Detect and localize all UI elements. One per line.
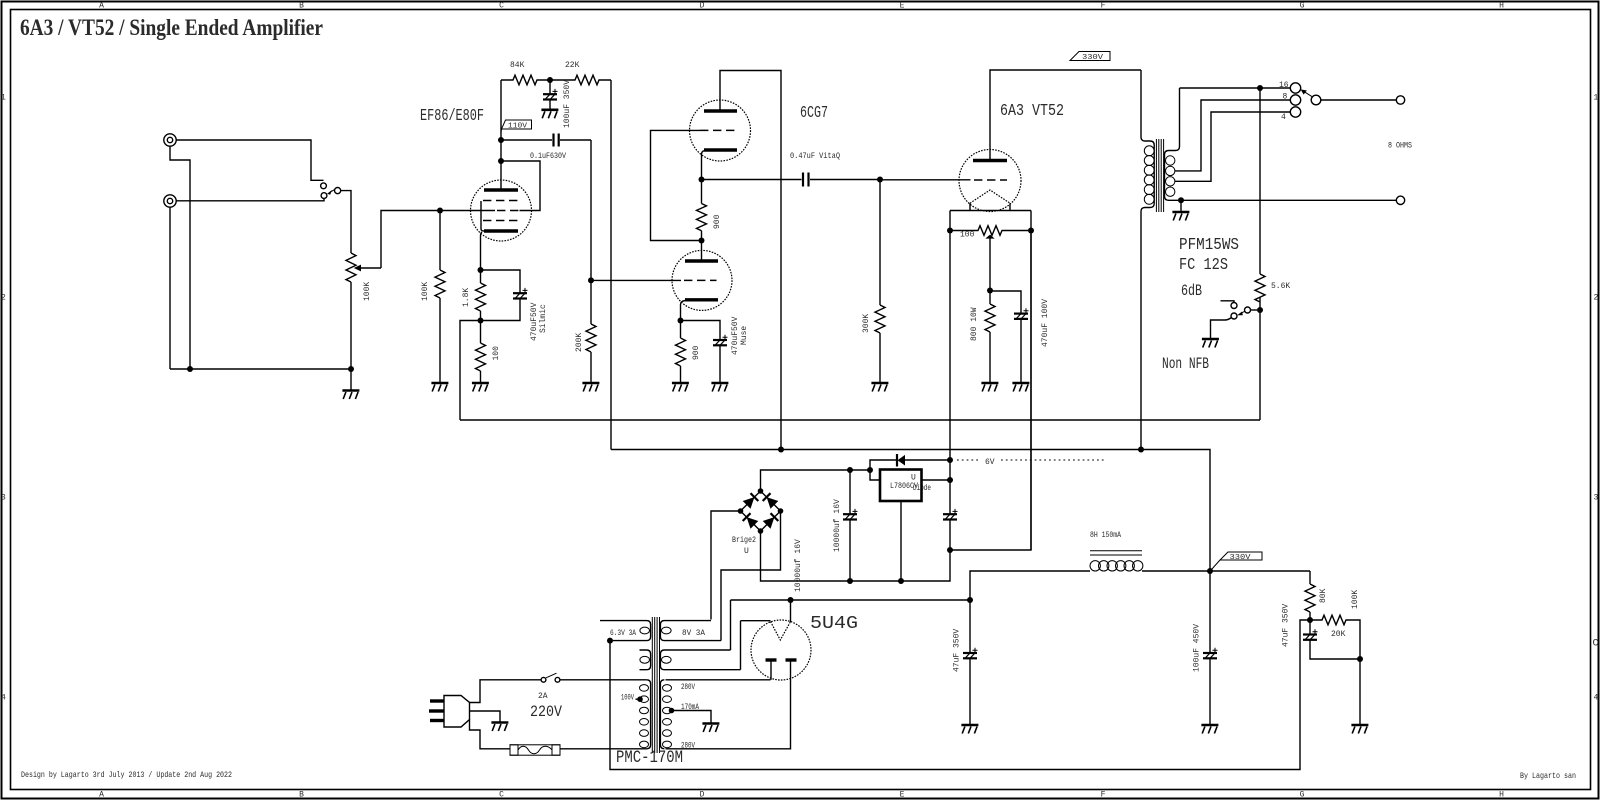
wire fuse to primary bottom: [560, 748, 647, 750]
svg-text:4: 4: [1, 694, 6, 703]
svg-text:E: E: [900, 791, 905, 800]
6CG7 SECTION: [651, 71, 971, 450]
svg-text:G: G: [1300, 2, 1305, 11]
bridge Brige2 diamond: [741, 491, 781, 531]
node cap1 minus: [847, 578, 853, 584]
node 47uF tap: [967, 597, 973, 603]
tube 5U4G V4: [751, 620, 811, 680]
input selector common: [335, 188, 341, 194]
grid digits right: [1593, 94, 1599, 703]
wire bridge AC2 to 8V bottom: [721, 511, 781, 641]
EF86 screen strap to plate: [501, 161, 540, 211]
node OPT primary feed: [1138, 447, 1144, 453]
upper grid dashed: [700, 129, 737, 131]
flag 330V plate: [1070, 52, 1110, 63]
svg-text:Non NFB: Non NFB: [1162, 355, 1209, 373]
node heater elevation: [607, 638, 613, 644]
wire J2 ground drop: [169, 207, 171, 369]
node plate/strap: [498, 158, 504, 164]
wire J1 to selector: [176, 140, 323, 180]
svg-text:2: 2: [1594, 294, 1599, 303]
wire B+ from 5U4G: [970, 571, 1090, 600]
capacitor 100uF 350V screen: [543, 80, 572, 128]
wire coupling cap to 6CG7 grid: [590, 140, 592, 280]
svg-text:3: 3: [1594, 494, 1599, 503]
svg-text:U: U: [744, 547, 749, 556]
lower cathode lead: [681, 301, 686, 321]
ground NFB: [1202, 339, 1219, 348]
INPUT SECTION: [164, 134, 440, 399]
svg-text:8 OHMS: 8 OHMS: [1388, 142, 1412, 151]
wire pot to ground bus: [350, 282, 352, 369]
node cathode: [478, 267, 484, 273]
ground 800: [981, 383, 998, 392]
capacitor 100uF 450V: [1193, 571, 1218, 724]
OPT 8 ohm tap: [1175, 100, 1290, 171]
regulator U L7806CV: [870, 470, 950, 582]
node reg gnd rail: [898, 578, 904, 584]
flag 330V B+: [1212, 552, 1263, 570]
wire bridge plus: [761, 470, 871, 491]
tap contact 4: [1290, 107, 1300, 117]
svg-text:H: H: [1499, 791, 1504, 800]
svg-text:20K: 20K: [1331, 630, 1346, 639]
resistor 1.8K: [462, 270, 486, 321]
svg-text:D: D: [700, 2, 705, 11]
ground 100: [472, 383, 489, 392]
svg-text:4: 4: [1281, 113, 1286, 122]
svg-text:Design by Lagarto 3rd July 201: Design by Lagarto 3rd July 2013 / Update…: [21, 770, 232, 780]
wire plug neutral to fuse: [470, 720, 511, 749]
svg-text:G: G: [1300, 791, 1305, 800]
svg-text:100uF 450V: 100uF 450V: [1193, 624, 1202, 672]
diode protection: [870, 454, 950, 493]
node 6CG7 plate feed: [778, 447, 784, 453]
svg-text:6dB: 6dB: [1181, 282, 1202, 300]
wire to 6A3 grid: [880, 179, 971, 181]
node cap1 plus: [847, 467, 853, 473]
svg-text:220V: 220V: [530, 703, 562, 721]
svg-text:L7806CV: L7806CV: [890, 482, 918, 491]
wire secondary common to output: [1181, 199, 1396, 201]
lower plate lead: [701, 241, 703, 262]
svg-text:100: 100: [492, 346, 501, 361]
lower plate: [685, 259, 718, 262]
svg-text:10000uf 16V: 10000uf 16V: [794, 539, 803, 592]
AC plug: [429, 696, 470, 728]
node reg in: [867, 467, 873, 473]
tap selector common: [1311, 95, 1321, 105]
wire selector to output: [1321, 99, 1397, 101]
wire NFB drop: [1259, 88, 1261, 274]
svg-text:900: 900: [713, 214, 722, 229]
EF86 g3-cathode hook: [481, 201, 484, 231]
svg-text:8: 8: [1283, 93, 1288, 102]
svg-text:110V: 110V: [508, 123, 528, 131]
wire common to node: [1251, 309, 1258, 311]
svg-text:470uF50V: 470uF50V: [731, 316, 740, 355]
tube 6CG7 upper V2a: [690, 100, 751, 161]
upper plate lead to B+: [720, 71, 781, 450]
svg-text:6A3 / VT52 / Single Ended Ampl: 6A3 / VT52 / Single Ended Amplifier: [20, 15, 323, 40]
wire B+ rail to choke: [731, 599, 971, 601]
wire selector to pot: [341, 191, 351, 253]
hum pot wiper arrow: [989, 239, 991, 291]
resistor 22K: [550, 61, 611, 85]
svg-text:10000uf 16V: 10000uf 16V: [833, 499, 842, 552]
OPT SECTION: [1141, 70, 1412, 450]
node 0.47uF / 300K / 6A3 grid: [877, 177, 883, 183]
net label 6V dotted: [957, 458, 1105, 467]
ground HV CT: [702, 724, 719, 733]
NFB switch common: [1245, 307, 1251, 313]
svg-text:PMC-170M: PMC-170M: [616, 748, 683, 768]
svg-text:100uF 350V: 100uF 350V: [563, 80, 572, 128]
input jack J1: [164, 134, 176, 146]
node input bus / J1: [187, 366, 193, 372]
EF86 plate: [484, 188, 518, 191]
svg-text:FC 12S: FC 12S: [1179, 255, 1228, 274]
choke 8H 150mA: [1090, 531, 1143, 571]
node secondary common: [1178, 197, 1184, 203]
OPT secondary winding: [1165, 88, 1182, 200]
svg-text:80K: 80K: [1319, 588, 1328, 603]
capacitor 0.1uF630V coupling: [501, 134, 591, 162]
fuse: [510, 745, 560, 755]
grid letters top: [99, 2, 1504, 11]
resistor 900 upper: [697, 180, 723, 241]
ground 47uF: [961, 725, 978, 734]
6A3 plate lead to OPT: [990, 70, 1141, 161]
svg-text:300K: 300K: [862, 314, 871, 333]
ground 300K: [871, 383, 888, 392]
svg-text:3: 3: [1, 494, 6, 503]
NFB switch contact down: [1231, 313, 1237, 319]
svg-text:8V 3A: 8V 3A: [682, 629, 705, 638]
ground 900 lower: [672, 383, 689, 392]
filament bracket: [950, 211, 1031, 231]
6A3 grid dashed: [974, 179, 1007, 181]
6dB open stub: [1221, 301, 1235, 303]
node hum pot right: [1028, 228, 1034, 234]
svg-text:16: 16: [1279, 81, 1289, 90]
wire J1 ground jog: [170, 146, 190, 369]
node NFB takeoff: [1257, 85, 1263, 91]
ground R100K: [431, 383, 448, 392]
svg-text:470uF 100V: 470uF 100V: [1041, 299, 1050, 347]
NFB switch contact up: [1231, 303, 1237, 309]
svg-text:C: C: [499, 791, 504, 800]
node choke/100uF: [1207, 568, 1213, 574]
output terminal common: [1396, 196, 1404, 204]
svg-text:100V: 100V: [621, 694, 634, 703]
tube 6A3 V3: [959, 150, 1021, 212]
OPT primary winding: [1141, 70, 1154, 450]
winding primary 220V: [640, 680, 651, 749]
node plate/coupling: [498, 137, 504, 143]
input jack J2: [164, 195, 176, 207]
5U4G right plate: [786, 658, 797, 661]
wire cathode to coupling cap: [702, 179, 802, 181]
OPT 4 ohm tap: [1175, 112, 1290, 181]
OPT core: [1156, 139, 1163, 212]
wire B+ rail: [611, 450, 1210, 572]
winding HV 280-0-280: [660, 680, 671, 749]
svg-text:5U4G: 5U4G: [810, 613, 858, 634]
capacitor 470uF50V Muse: [681, 316, 750, 383]
switch 2A: [538, 673, 560, 701]
svg-text:6A3 VT52: 6A3 VT52: [1000, 101, 1064, 120]
node 84K/22K: [547, 77, 553, 83]
capacitor 47uF 350V: [953, 600, 978, 724]
grid letters bottom: [99, 791, 1504, 800]
ground 100uF350V: [541, 110, 558, 119]
transformer PMC-170M core: [652, 617, 659, 753]
node input bus / pot: [348, 366, 354, 372]
wire HV bottom to right plate: [666, 660, 791, 749]
DIVIDER: [610, 571, 1368, 770]
CHOKE/CAPS: [953, 531, 1311, 734]
resistor 80K: [1305, 571, 1328, 620]
node divider: [1307, 617, 1313, 623]
upper cathode: [704, 148, 737, 151]
wire HV top to left plate: [666, 679, 771, 681]
upper grid return wire: [651, 130, 702, 240]
ground plug: [491, 723, 508, 732]
node hum pot left: [947, 228, 953, 234]
svg-text:C: C: [1593, 639, 1599, 650]
bridge diode TR: [767, 497, 779, 509]
wire grid to tube: [440, 210, 495, 212]
svg-text:1: 1: [1594, 94, 1599, 103]
svg-text:C: C: [499, 2, 504, 11]
svg-text:By Lagarto san: By Lagarto san: [1520, 771, 1576, 781]
heater feed left riser: [949, 231, 951, 515]
5U4G filament: [741, 600, 791, 622]
upper plate: [704, 109, 737, 112]
svg-text:100K: 100K: [1351, 590, 1360, 609]
wire bridge AC1 to 8V top: [711, 511, 741, 620]
capacitor 470uF50V Silmic: [481, 270, 549, 341]
input selector contact A: [321, 183, 327, 189]
EF86 grid g1 dashed: [497, 210, 519, 212]
winding left unused: [640, 650, 651, 670]
wire plug earth: [470, 711, 501, 722]
HV center tap: [669, 708, 711, 723]
node bridge corners: [758, 488, 764, 494]
node cap2 minus: [947, 547, 953, 553]
wire B+ feed 22K riser: [610, 80, 612, 450]
OPT 16 ohm wire: [1180, 87, 1291, 89]
tap contact 16: [1290, 83, 1300, 93]
wire NFB rail: [460, 419, 1260, 421]
svg-text:F: F: [1101, 2, 1106, 11]
svg-text:H: H: [1499, 2, 1504, 11]
node 6CG7 grid / 200K: [588, 277, 594, 283]
svg-text:22K: 22K: [565, 61, 580, 70]
svg-text:6.3V 3A: 6.3V 3A: [610, 629, 636, 638]
svg-text:470uF50V: 470uF50V: [530, 302, 539, 341]
node 1.8K/100 junction: [478, 318, 484, 324]
ground OPT secondary: [1172, 200, 1189, 220]
svg-text:330V: 330V: [1230, 554, 1252, 562]
capacitor 10000uf 16V second: [833, 499, 958, 552]
wire plug hot to switch: [470, 680, 542, 703]
5U4G left plate: [766, 658, 777, 661]
resistor 800 10W: [970, 291, 995, 382]
svg-text:1: 1: [1, 94, 6, 103]
node filament B+: [788, 597, 794, 603]
bridge diode TL: [743, 497, 755, 509]
svg-text:E: E: [900, 2, 905, 11]
tube 6CG7 lower V2b: [672, 250, 732, 310]
capacitor 0.47uF VitaQ: [790, 152, 880, 187]
6A3 SECTION: [947, 52, 1141, 551]
svg-text:A: A: [99, 791, 104, 800]
heater return right riser: [1030, 231, 1032, 551]
svg-text:8H 150mA: 8H 150mA: [1090, 531, 1121, 540]
wire to 6CG7 grid: [591, 279, 681, 281]
wire switch to primary: [560, 679, 647, 681]
ground input: [342, 369, 359, 399]
svg-text:Brige2: Brige2: [732, 536, 756, 545]
svg-text:Muse: Muse: [740, 326, 749, 345]
EF86 cathode: [484, 229, 518, 232]
lower cathode: [685, 298, 718, 301]
tap contact 8: [1290, 95, 1300, 105]
svg-text:D: D: [700, 791, 705, 800]
resistor 100 cathode: [476, 321, 502, 383]
winding 5V rectifier: [660, 650, 740, 670]
5U4G filament return riser: [740, 621, 742, 670]
NonNFB ground stub: [1211, 318, 1232, 339]
svg-text:5.6K: 5.6K: [1271, 282, 1290, 291]
input selector lever: [331, 189, 335, 192]
tap selector lever: [1305, 92, 1312, 97]
node lower cathode: [678, 318, 684, 324]
resistor 20K: [1310, 615, 1360, 659]
ground Muse: [711, 383, 728, 392]
EF86 grid g3 dashed: [483, 200, 519, 202]
hum pot 100: [950, 226, 1031, 240]
capacitor 10000uf 16V first: [794, 470, 858, 592]
wire wiper to EF86 grid: [381, 211, 440, 269]
svg-text:4: 4: [1594, 694, 1599, 703]
NFB switch lever: [1241, 311, 1245, 313]
tap 100V: [621, 694, 643, 703]
svg-text:47uF 350V: 47uF 350V: [1282, 604, 1291, 647]
capacitor 47uF 350V divider: [1282, 604, 1361, 659]
svg-text:280V: 280V: [681, 683, 695, 692]
svg-text:0.47uF VitaQ: 0.47uF VitaQ: [790, 152, 840, 161]
tube EF86 V1: [471, 180, 532, 241]
ground 100uF450V: [1201, 725, 1218, 734]
wire J2 to selector: [176, 199, 324, 201]
winding 6.3V 3A: [600, 621, 651, 641]
svg-text:100K: 100K: [363, 282, 372, 301]
ground 200K: [582, 383, 599, 392]
EF86 cathode lead: [481, 232, 483, 270]
svg-text:84K: 84K: [510, 61, 525, 70]
svg-text:1.8K: 1.8K: [462, 288, 471, 307]
svg-text:47uF 350V: 47uF 350V: [953, 629, 962, 672]
EF86 plate lead: [500, 80, 502, 190]
svg-text:A: A: [99, 2, 104, 11]
6A3 filament: [970, 190, 1010, 203]
node upper cathode out: [699, 177, 705, 183]
svg-text:0.1uF630V: 0.1uF630V: [530, 152, 566, 161]
6A3 plate: [973, 159, 1007, 162]
EF86 SECTION: [420, 61, 681, 450]
grid digits left: [1, 94, 6, 703]
resistor 84K: [501, 61, 550, 85]
MAINS/TRANSFORMER/5U4G: [429, 597, 973, 768]
potentiometer VR1 100K: [346, 253, 356, 282]
node cathode bias: [987, 288, 993, 294]
svg-text:330V: 330V: [1082, 54, 1104, 62]
svg-text:EF86/E80F: EF86/E80F: [420, 106, 484, 125]
resistor 900 lower: [676, 321, 702, 384]
node diode anode: [947, 457, 953, 463]
wire bridge minus rail: [761, 231, 1032, 582]
BRIDGE/REG: [711, 231, 1105, 641]
wire NFB to cathode junction: [460, 321, 481, 421]
wire choke out: [1142, 570, 1310, 572]
upper cathode lead: [702, 151, 705, 180]
svg-text:800 10W: 800 10W: [970, 307, 979, 341]
svg-text:F: F: [1101, 791, 1106, 800]
svg-text:Silmic: Silmic: [539, 304, 548, 333]
output terminal hot: [1396, 96, 1404, 104]
bridge diode BR: [763, 517, 775, 529]
input selector contact B: [321, 193, 327, 199]
resistor 300K: [862, 180, 885, 383]
ground bleed: [1351, 725, 1368, 734]
resistor 5.6K: [1255, 274, 1290, 420]
ground 470uF100V: [1012, 383, 1029, 392]
svg-text:B: B: [299, 2, 304, 11]
node bleed gnd: [1357, 656, 1363, 662]
lower grid dashed: [684, 279, 717, 281]
capacitor 470uF 100V: [990, 291, 1050, 382]
RAILS: [460, 420, 1260, 571]
5U4G B+ riser: [730, 600, 732, 650]
wire heater elevation rail: [610, 620, 1310, 770]
svg-text:900: 900: [692, 345, 701, 360]
node NFB switch: [1257, 307, 1263, 313]
svg-text:6CG7: 6CG7: [800, 103, 828, 122]
svg-text:100: 100: [960, 231, 975, 240]
svg-text:B: B: [299, 791, 304, 800]
NFB SECTION: [1162, 88, 1290, 420]
resistor 200K: [575, 280, 596, 382]
wire bleed to ground: [1359, 659, 1361, 724]
svg-text:6V: 6V: [985, 458, 995, 467]
node grid wire / R 100K: [437, 208, 443, 214]
svg-text:2A: 2A: [538, 692, 548, 701]
node grid/900/lower plate: [699, 238, 705, 244]
svg-text:100K: 100K: [421, 282, 430, 301]
resistor R 100K grid: [421, 211, 445, 383]
input ground bus: [170, 368, 351, 370]
flag 110V: [501, 120, 532, 133]
bridge diode BL: [747, 517, 759, 529]
node reg out: [947, 477, 953, 483]
winding 8V 3A: [660, 621, 721, 641]
svg-text:200K: 200K: [575, 333, 584, 352]
EF86 grid g2 dashed: [483, 220, 519, 222]
svg-text:PFM15WS: PFM15WS: [1179, 235, 1239, 254]
